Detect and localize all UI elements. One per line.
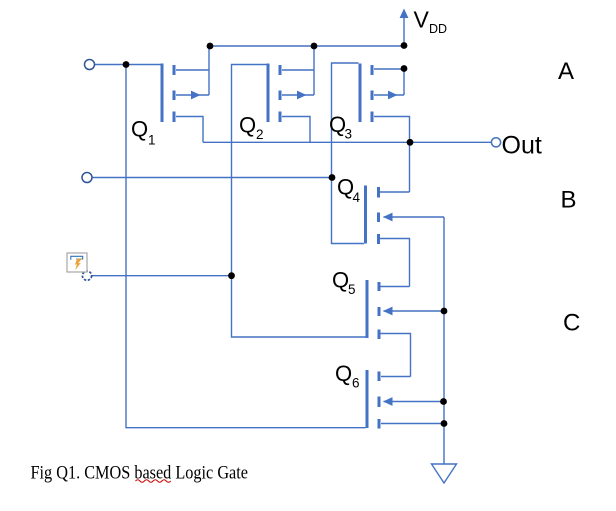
svg-text:5: 5	[348, 282, 356, 297]
svg-text:Q: Q	[131, 116, 148, 141]
svg-text:1: 1	[148, 133, 156, 148]
svg-text:Q: Q	[335, 361, 352, 386]
svg-text:4: 4	[353, 190, 361, 205]
svg-text:B: B	[561, 186, 577, 213]
svg-text:3: 3	[345, 127, 353, 142]
svg-text:C: C	[563, 309, 580, 336]
svg-text:Q: Q	[239, 113, 256, 138]
svg-text:6: 6	[352, 376, 360, 391]
svg-text:DD: DD	[429, 22, 447, 36]
svg-text:Q: Q	[332, 268, 349, 293]
svg-text:2: 2	[256, 127, 264, 142]
svg-text:V: V	[414, 7, 430, 33]
svg-text:A: A	[558, 58, 574, 85]
svg-text:Out: Out	[502, 131, 542, 159]
